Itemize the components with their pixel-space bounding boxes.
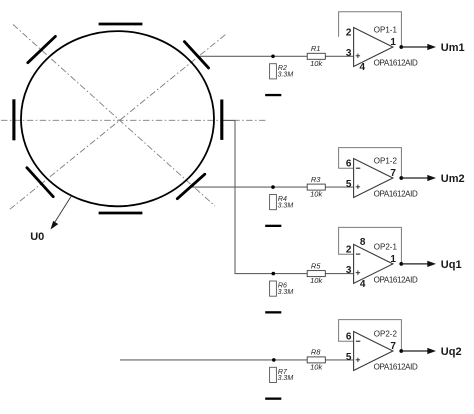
svg-text:Uq2: Uq2 (441, 346, 462, 358)
svg-text:3: 3 (346, 48, 352, 59)
svg-text:5: 5 (346, 352, 352, 363)
svg-text:10k: 10k (310, 190, 323, 199)
svg-text:7: 7 (390, 168, 396, 179)
svg-text:OPA1612AID: OPA1612AID (374, 363, 418, 372)
svg-text:5: 5 (346, 179, 352, 190)
svg-text:10k: 10k (310, 276, 323, 285)
svg-text:1: 1 (390, 254, 396, 265)
svg-text:OP1-2: OP1-2 (374, 157, 398, 166)
svg-text:3.3M: 3.3M (278, 202, 294, 209)
svg-text:3: 3 (346, 265, 352, 276)
svg-text:10k: 10k (310, 363, 323, 372)
svg-text:OPA1612AID: OPA1612AID (374, 276, 418, 285)
svg-text:Um1: Um1 (441, 42, 465, 54)
svg-text:7: 7 (390, 341, 396, 352)
svg-text:OP2-2: OP2-2 (374, 330, 398, 339)
svg-text:6: 6 (346, 158, 352, 169)
svg-text:3.3M: 3.3M (278, 72, 294, 79)
svg-text:1: 1 (390, 37, 396, 48)
svg-text:R8: R8 (311, 348, 321, 357)
svg-text:3.3M: 3.3M (278, 289, 294, 296)
svg-text:R1: R1 (311, 44, 321, 53)
svg-text:4: 4 (360, 62, 366, 73)
svg-text:2: 2 (346, 244, 352, 255)
svg-text:Uq1: Uq1 (441, 259, 462, 271)
svg-text:OP1-1: OP1-1 (374, 26, 398, 35)
svg-text:U0: U0 (30, 231, 44, 243)
svg-text:R3: R3 (311, 175, 321, 184)
svg-text:OPA1612AID: OPA1612AID (374, 190, 418, 199)
svg-text:OP2-1: OP2-1 (374, 243, 398, 252)
svg-text:8: 8 (360, 237, 366, 248)
svg-text:R5: R5 (311, 261, 321, 270)
svg-text:2: 2 (346, 27, 352, 38)
svg-text:Um2: Um2 (441, 173, 465, 185)
svg-text:4: 4 (360, 279, 366, 290)
svg-text:6: 6 (346, 331, 352, 342)
svg-text:3.3M: 3.3M (278, 375, 294, 382)
svg-text:OPA1612AID: OPA1612AID (374, 59, 418, 68)
svg-text:10k: 10k (310, 59, 323, 68)
